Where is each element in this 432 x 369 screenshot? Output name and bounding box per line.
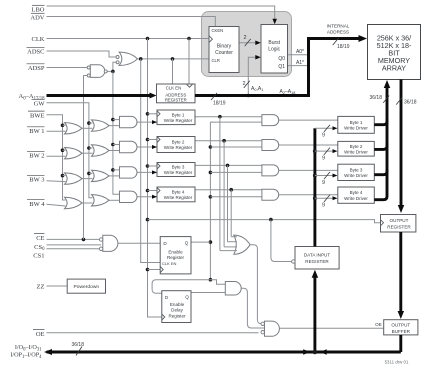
svg-text:9: 9 [322,203,325,209]
bus write data vertical [374,80,390,200]
svg-text:ADV: ADV [30,15,44,22]
svg-text:CLK EN: CLK EN [162,261,177,266]
svg-text:18/19: 18/19 [213,101,226,107]
svg-text:INTERNAL: INTERNAL [327,24,350,29]
burst control group container [202,12,292,77]
wire CLK to address register clock [188,39,190,85]
label CS0 [34,244,45,252]
gate byte4 AND [120,191,138,202]
svg-text:Q: Q [185,295,189,300]
svg-text:18/19: 18/19 [337,44,350,50]
svg-text:Byte 3: Byte 3 [172,165,185,170]
gate output enable NAND U9 [261,321,279,336]
svg-text:BW 2: BW 2 [29,153,44,160]
wire CLKEN vertical to enable register [141,59,161,263]
bus memory read data [398,80,405,214]
svg-text:36/18: 36/18 [71,342,84,348]
wire output NAND to output buffer [280,327,384,329]
svg-text:REGISTER: REGISTER [165,98,187,103]
wire CLK branch to enable register clock [148,269,161,271]
bus data-in vertical to write drivers [313,128,317,246]
wire OR2 to AND row3 [109,175,121,177]
label CS1 [33,253,44,260]
svg-text:Powerdown: Powerdown [74,284,100,290]
wire write AND3 out to driver [279,169,338,171]
wire LBO to burst logic [47,6,275,21]
gate byte2 OR1 [65,148,83,159]
byte2 write register [157,137,195,153]
wire U1 vertical branches [113,120,121,170]
svg-text:CLR: CLR [212,58,220,63]
wire BW1 [47,130,66,132]
label I/OP1-I/OP4 [10,352,42,360]
svg-text:Register: Register [168,314,186,319]
svg-text:Write Driver: Write Driver [344,149,368,154]
label A0* [296,49,304,55]
wire BW4 [47,204,66,206]
gate byte1 OR1 [65,123,83,134]
svg-text:Write Register: Write Register [164,170,193,175]
wire delay register Q to AND U8 [191,292,225,294]
label 36/18 write bus [369,95,389,103]
wire OR1 to OR2 row4 [82,202,93,204]
wire CS1 [47,248,101,250]
svg-text:A0*: A0* [296,49,304,55]
label CE [34,234,45,242]
gate byte1 OR2 [92,120,110,131]
svg-text:Burst: Burst [268,40,280,46]
gate byte2 AND [120,141,137,152]
wire OR U7 output to output NAND [250,245,261,324]
svg-text:Logic: Logic [268,47,280,53]
byte3 write driver [338,164,375,180]
gate U2 clock-enable NOR [116,52,137,65]
svg-text:CKEN: CKEN [212,28,224,33]
bus write driver2 out [374,143,387,149]
svg-text:ZZ: ZZ [37,284,45,291]
label 36/18 io bus [71,342,84,356]
svg-text:9: 9 [322,155,325,161]
arrow LBO into burst logic [272,19,277,25]
wire write AND4 out to driver [279,194,338,196]
svg-text:Write Driver: Write Driver [344,173,368,178]
gate write AND byte1 [262,115,279,126]
gate byte3 OR2 [92,170,110,181]
wire CS0 [47,244,102,246]
wire enable branches to AND inputs [210,122,262,197]
wire AND U8 output to output NAND [241,288,264,328]
bus A2-A18 junction slash 2 A0,A1 [242,81,249,88]
wire GW vertical [47,103,93,198]
svg-text:ADDRESS: ADDRESS [327,30,349,35]
svg-text:Binary: Binary [217,44,232,50]
label ADV [30,13,44,21]
svg-text:LBO: LBO [32,7,45,14]
wire data branch to driver1 with slash 9 [315,125,338,139]
wire write AND1 out to driver [279,119,338,121]
wire GW branches to OR gates [89,123,93,173]
bus internal address [195,35,367,96]
svg-text:Write Register: Write Register [164,145,193,150]
svg-text:Byte 1: Byte 1 [350,120,363,125]
byte4 write register [157,187,195,202]
svg-text:BUFFER: BUFFER [392,329,411,334]
label 18/19 internal address [333,38,350,50]
wire write AND2 out to driver [279,144,338,146]
wire AND to byte4 write register D [137,195,157,199]
wire BWE branches [63,125,66,175]
svg-text:ADSC: ADSC [27,49,44,56]
label ADSP [27,64,45,72]
gate byte3 OR1 [65,173,83,184]
wire A0 A1 feedback to burst logic [247,55,261,97]
wire enable vertical to write AND gates [209,122,213,281]
wire CLKEN to address register [172,59,174,84]
wire byte1 register Q to write AND [195,115,263,119]
wire OR1 to OR2 row2 [82,152,93,154]
gate write AND byte3 [262,165,279,176]
svg-text:Q1: Q1 [278,64,285,70]
svg-text:Write Register: Write Register [164,118,193,123]
wire clock drop to data input register [271,220,292,262]
svg-text:Q: Q [185,241,189,246]
address register [157,84,196,103]
label ADSC [27,47,45,55]
bus write driver1 out [374,119,387,125]
gate byte2 OR2 [92,145,110,156]
svg-text:ARRAY: ARRAY [382,64,406,73]
gate enable OR U7 [220,235,250,254]
label ZZ [37,284,45,291]
svg-text:Delay: Delay [171,308,183,313]
byte1 write driver [338,116,375,133]
svg-text:Enable: Enable [168,249,183,254]
svg-text:BW 4: BW 4 [29,201,45,208]
label GW [32,99,46,107]
label BW4 [27,200,45,208]
svg-text:36/18: 36/18 [404,100,417,106]
svg-text:Q0: Q0 [278,56,285,62]
wire ZZ to powerdown [47,285,68,287]
svg-text:A1*: A1* [296,60,304,66]
memory array [368,25,421,80]
wire AND to byte2 write register D [137,145,157,149]
wire byte3 register Q to write AND [195,164,263,168]
wire counter to burst logic [239,40,261,45]
gate byte1 AND [120,116,138,127]
gate byte3 AND [120,167,138,178]
svg-text:CS1: CS1 [33,253,44,260]
byte1 write register [157,110,195,125]
byte3 write register [157,163,195,177]
wire enable register Q [191,241,210,243]
wire CLK branch to byte write register clocks [148,114,158,191]
wire OR1 to OR2 row3 [82,178,93,180]
wire burst Q0 output A0* [288,54,309,56]
byte2 write driver [338,141,375,156]
label OE [33,330,45,338]
bus output buffer down [399,335,402,352]
svg-text:9: 9 [322,133,325,139]
svg-text:5311 drw 01: 5311 drw 01 [385,360,409,365]
enable delay register [162,291,191,323]
wire ADV to counter CKEN [47,17,216,27]
wire ADSP to gate U1 [47,67,88,69]
gate enable AND U8 [225,282,241,296]
svg-text:Register: Register [167,255,185,260]
binary counter [209,27,239,73]
label BW3 [27,175,45,183]
svg-text:GW: GW [34,101,46,108]
svg-text:I/OP1–I/OP4: I/OP1–I/OP4 [10,352,42,360]
bus I/O bottom [44,349,401,355]
wire U1 output vertical to byte AND gates [111,71,120,194]
svg-text:Write Register: Write Register [164,195,193,200]
svg-text:OE: OE [375,322,382,327]
svg-text:Enable: Enable [170,302,185,307]
output register [381,215,416,233]
wire CLK [47,37,210,41]
burst logic [261,25,288,74]
enable register [160,237,191,274]
svg-text:OE: OE [36,331,45,338]
wire byte2 register Q to write AND [195,139,263,143]
bus A0-A17/18 input [47,93,157,99]
svg-text:BWE: BWE [30,112,44,119]
svg-text:BW 1: BW 1 [29,128,44,135]
wire enable to AND U8 input [210,280,225,285]
label A0,A1 [251,86,263,92]
gate write AND byte2 [262,140,279,151]
label A2-A18 [280,89,296,95]
bus data input register up [312,270,319,352]
svg-text:Write Driver: Write Driver [344,196,368,201]
label BW1 [27,127,45,135]
svg-text:9: 9 [322,180,325,186]
wire byte4 register Q to write AND [195,188,263,192]
svg-text:2: 2 [242,81,245,87]
svg-text:DATA INPUT: DATA INPUT [304,253,331,258]
label A0-A17/18 [19,93,46,101]
wire AND to byte3 write register D [137,170,157,174]
label LBO [32,5,45,13]
svg-text:CLK EN: CLK EN [166,86,182,91]
svg-text:Byte 2: Byte 2 [172,140,185,145]
wire burst Q1 output A1* [288,65,309,67]
wire clock-enable U2 output [137,57,209,61]
output buffer [375,320,418,335]
label CLK [32,36,45,43]
wire CE [47,238,101,242]
gate U1 NAND ADSP/CE [87,65,107,78]
wire CLK vertical distribution [146,39,162,318]
wire OR1 to OR2 row1 [82,127,93,129]
gate CS AND U5 [99,235,118,251]
gate write AND byte4 [262,189,279,200]
svg-text:Byte 4: Byte 4 [172,189,185,194]
svg-text:Write Driver: Write Driver [344,125,368,130]
label 36/18 read bus [396,97,417,105]
label I/O0-I/O31 [15,344,42,352]
byte4 write driver [338,187,375,203]
svg-text:REGISTER: REGISTER [387,224,411,229]
label BW2 [27,151,45,159]
wire enable reg Q to delay register D [152,280,210,294]
bus output register to buffer [398,232,405,319]
wire OR2 to AND row4 [109,199,121,201]
wire CE vertical to gate U1 [84,76,88,240]
svg-text:Byte 1: Byte 1 [172,112,185,117]
wire OR2 to AND row2 [109,150,121,152]
svg-text:Byte 2: Byte 2 [350,144,363,149]
svg-text:OUTPUT: OUTPUT [390,218,409,223]
wire OR2 to AND row1 [109,125,121,127]
bus write driver3 out [374,169,387,175]
label 2 counter out [243,35,250,46]
label BWE [28,111,45,119]
wire BW2 [47,155,66,157]
wire BW3 [47,180,66,183]
gate byte4 OR1 [65,197,83,208]
wire CS AND out to enable register D [118,242,160,244]
svg-text:BW 3: BW 3 [29,177,44,184]
wire output register clock [148,218,381,223]
svg-text:Counter: Counter [215,50,233,56]
svg-text:OUTPUT: OUTPUT [391,323,410,328]
svg-text:CE: CE [36,235,44,242]
label 5311 drw 01 [385,360,409,365]
label 18/19 address register out [211,93,226,107]
wire BWE vertical [47,115,66,200]
gate byte4 OR2 [92,195,110,206]
svg-text:36/18: 36/18 [369,95,382,101]
wire data branch to driver4 with slash 9 [315,195,338,209]
label A1* [296,60,304,66]
wire data branch to driver3 with slash 9 [315,172,338,186]
svg-text:ADSP: ADSP [28,65,45,72]
wire AND to byte1 write register D [137,120,157,124]
wire gate U1 out to gate U2 [107,62,116,73]
label INTERNAL ADDRESS [327,24,350,35]
svg-text:Byte 4: Byte 4 [350,190,363,195]
powerdown block [67,279,105,293]
wire byte write enables verticals [220,117,231,251]
svg-text:CLK: CLK [32,36,45,43]
wire data branch to driver2 with slash 9 [315,148,338,162]
wire OE [47,332,259,334]
svg-text:2: 2 [243,35,246,41]
svg-text:Byte 3: Byte 3 [350,167,363,172]
wire ADSC to gate U2 [47,51,117,57]
svg-text:REGISTER: REGISTER [305,259,329,264]
data input register [292,247,340,270]
